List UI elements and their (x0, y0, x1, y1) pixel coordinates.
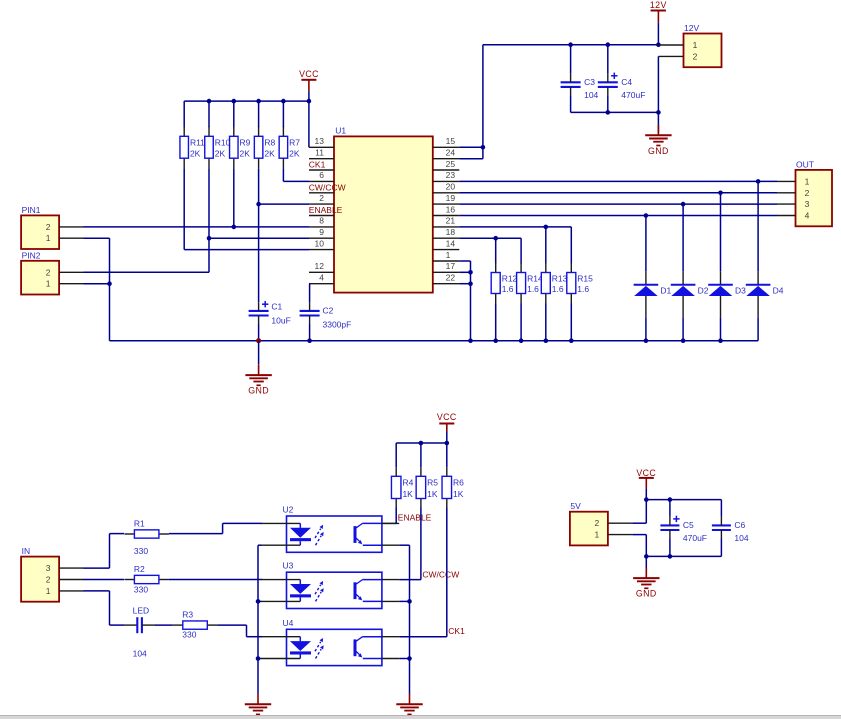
svg-text:21: 21 (446, 216, 456, 226)
svg-text:2: 2 (805, 188, 810, 198)
optocoupler U3 (262, 561, 400, 609)
svg-text:VCC: VCC (437, 412, 457, 422)
svg-text:R6: R6 (453, 478, 464, 488)
svg-text:24: 24 (446, 148, 456, 158)
wire R10 top (208, 101, 210, 127)
connector 12V (658, 23, 721, 67)
wire 5V bottom rail (644, 539, 721, 559)
svg-text:1.6: 1.6 (577, 284, 589, 294)
svg-text:U4: U4 (283, 618, 294, 628)
wire 5V top rail (644, 488, 721, 502)
wire D2 bottom (681, 317, 686, 343)
svg-text:U3: U3 (283, 561, 294, 571)
svg-text:GND: GND (248, 386, 269, 396)
svg-text:12V: 12V (650, 0, 667, 10)
wire C3 top (570, 45, 572, 74)
svg-text:3300pF: 3300pF (323, 320, 352, 330)
svg-text:U2: U2 (283, 505, 294, 515)
wire R9 bottom to pin8 row (232, 168, 237, 229)
svg-text:16: 16 (446, 204, 456, 214)
svg-text:3: 3 (805, 199, 810, 209)
wire R8 bottom to pin2 row and C1 (256, 168, 309, 302)
wire D3 bottom (718, 317, 723, 343)
svg-text:C2: C2 (323, 306, 334, 316)
svg-text:LED: LED (133, 606, 150, 616)
svg-text:15: 15 (446, 136, 456, 146)
resistor R3 (173, 610, 218, 640)
capacitor C1 (249, 301, 291, 326)
wire 12V stem (657, 22, 659, 45)
svg-text:470uF: 470uF (621, 90, 645, 100)
wire R13 bottom (544, 304, 549, 344)
wire D2 top (681, 202, 686, 271)
wire 12V pin2 down to GND (657, 56, 659, 132)
svg-text:GND: GND (636, 589, 657, 599)
wire C1 bottom to ground bus (258, 324, 260, 341)
resistor R12 (491, 263, 517, 304)
wire pin1/17/22 common (459, 261, 473, 343)
optocoupler U2 (262, 505, 400, 553)
resistor R5 (416, 467, 438, 507)
ground (645, 125, 671, 156)
svg-text:330: 330 (134, 585, 148, 595)
power VCC (5V section) (636, 468, 656, 488)
connector OUT (777, 159, 832, 226)
wire R11 bottom to pin10 (184, 168, 309, 249)
svg-text:10: 10 (315, 238, 325, 248)
wire VCC top bus (184, 100, 309, 102)
svg-text:1.6: 1.6 (527, 284, 539, 294)
power VCC (top) (299, 69, 319, 92)
svg-text:PIN2: PIN2 (22, 250, 41, 260)
capacitor C6 (712, 517, 749, 543)
wire U4 collector to R6 / net CK1 (399, 508, 465, 637)
svg-text:2K: 2K (190, 149, 201, 159)
resistor R8 (254, 126, 275, 168)
wire R14 bottom (519, 304, 524, 344)
wire pin23 to OUT.1 (459, 180, 777, 182)
ground (245, 694, 271, 715)
wire 5V pin2 up (632, 500, 646, 524)
svg-text:VCC: VCC (636, 468, 656, 478)
svg-text:330: 330 (134, 546, 148, 556)
svg-text:13: 13 (315, 136, 325, 146)
wire pin19 to OUT.3 (459, 203, 777, 205)
svg-text:IN: IN (22, 546, 31, 556)
resistor R1 (124, 518, 168, 556)
wire PIN1.2 to pin8 (83, 226, 309, 228)
svg-text:12V: 12V (684, 23, 699, 33)
connector 5V (570, 501, 633, 545)
wire R3 to U4 anode (217, 625, 262, 637)
svg-text:2K: 2K (240, 149, 251, 159)
wire R12 bottom (493, 304, 498, 344)
svg-text:PIN1: PIN1 (22, 205, 41, 215)
svg-text:OUT: OUT (796, 159, 814, 169)
wire ground bus (top section) (110, 340, 759, 342)
svg-text:11: 11 (315, 148, 324, 158)
svg-text:C3: C3 (584, 77, 595, 87)
svg-text:1K: 1K (402, 489, 413, 499)
svg-text:10uF: 10uF (271, 316, 290, 326)
wire 5V GND drop (645, 556, 647, 573)
wire PIN2.2 to R10 vertical (83, 271, 209, 273)
svg-text:19: 19 (446, 193, 456, 203)
svg-text:C4: C4 (621, 77, 632, 87)
svg-text:1K: 1K (427, 489, 438, 499)
wire pin15 to 12V rail (459, 45, 485, 159)
svg-text:1: 1 (446, 250, 451, 260)
optocoupler U4 (262, 618, 400, 666)
svg-text:3: 3 (46, 563, 51, 573)
svg-text:1.6: 1.6 (502, 284, 514, 294)
connector PIN2 (21, 250, 84, 294)
wire LED to R3 (155, 624, 173, 626)
svg-text:6: 6 (319, 170, 324, 180)
svg-text:104: 104 (734, 533, 748, 543)
svg-text:1: 1 (693, 40, 698, 50)
wire R8 top (258, 101, 260, 127)
svg-text:4: 4 (319, 273, 324, 283)
ground (245, 365, 271, 396)
wire pin21 to R13/R15 (459, 225, 571, 230)
svg-text:ENABLE: ENABLE (398, 513, 432, 523)
resistor R2 (124, 564, 168, 595)
svg-text:D4: D4 (773, 285, 784, 295)
svg-text:U1: U1 (335, 126, 346, 136)
svg-text:R11: R11 (190, 138, 205, 148)
wire C3-C4 bottom rail (571, 95, 661, 114)
resistor R15 (567, 263, 593, 304)
svg-text:R13: R13 (552, 274, 568, 284)
wire C5 top (669, 500, 671, 517)
svg-text:2: 2 (319, 193, 324, 203)
svg-text:14: 14 (446, 238, 456, 248)
svg-text:1.6: 1.6 (552, 284, 564, 294)
svg-text:R15: R15 (577, 274, 593, 284)
svg-text:C1: C1 (271, 302, 282, 312)
window scrollbar strip (0, 715, 841, 719)
wire emitter bus to ground (399, 545, 412, 694)
svg-text:2K: 2K (289, 149, 300, 159)
wire PIN1.1 down to ground bus (83, 238, 111, 341)
IC U1 (334, 126, 433, 293)
svg-text:1: 1 (595, 530, 600, 540)
wire R10 bottom to pin9 and PIN2.2 (207, 168, 309, 272)
resistor R9 (230, 126, 251, 168)
svg-text:104: 104 (584, 90, 598, 100)
svg-text:8: 8 (319, 216, 324, 226)
wire U3 collector to R5 / net CW/CCW (399, 508, 459, 580)
wire R7 top (282, 101, 284, 127)
wire C4 top (607, 45, 609, 74)
wire 12V top rail (483, 42, 661, 47)
wire R12 top (495, 238, 497, 263)
connector IN (21, 546, 84, 602)
wire C2 bottom to ground bus (307, 324, 312, 343)
wire PIN2.1 join (83, 283, 109, 285)
svg-text:C5: C5 (683, 520, 694, 530)
ground (396, 694, 422, 715)
wire R15 bottom (569, 304, 574, 344)
resistor R10 (205, 126, 231, 168)
svg-text:1: 1 (46, 233, 51, 243)
svg-text:1: 1 (46, 279, 51, 289)
svg-text:R8: R8 (264, 138, 275, 148)
svg-text:104: 104 (133, 649, 147, 659)
svg-text:330: 330 (182, 629, 196, 639)
svg-text:R14: R14 (527, 274, 543, 284)
svg-text:CK1: CK1 (309, 160, 326, 170)
svg-text:2: 2 (693, 51, 698, 61)
svg-text:VCC: VCC (299, 69, 319, 79)
svg-text:R12: R12 (502, 274, 518, 284)
capacitor C2 (300, 302, 352, 329)
svg-text:CK1: CK1 (448, 626, 465, 636)
svg-text:20: 20 (446, 182, 456, 192)
svg-text:2K: 2K (215, 149, 226, 159)
svg-text:22: 22 (446, 273, 456, 283)
wire IN.2 to R2 (83, 579, 124, 581)
svg-text:12: 12 (315, 261, 325, 271)
svg-text:R3: R3 (182, 610, 193, 620)
svg-text:2: 2 (46, 267, 51, 277)
wire IN.1 down to LED cap (83, 591, 124, 625)
wire cathode bus to ground (256, 545, 262, 694)
svg-text:2K: 2K (264, 149, 275, 159)
resistor R14 (517, 263, 543, 304)
wire R11 top (183, 101, 185, 127)
svg-text:D2: D2 (698, 285, 709, 295)
wire D3 top (718, 191, 723, 272)
svg-text:R1: R1 (134, 518, 145, 528)
capacitor LED (124, 606, 155, 659)
wire VCC stem to pin13 (308, 92, 310, 148)
svg-text:D1: D1 (660, 285, 671, 295)
wire GND drop (258, 341, 260, 365)
capacitor C3 (561, 74, 599, 100)
wire pin18 to R12/R14 (459, 236, 521, 241)
connector PIN1 (21, 205, 84, 249)
svg-text:2: 2 (46, 575, 51, 585)
svg-text:R2: R2 (134, 564, 145, 574)
svg-text:18: 18 (446, 227, 456, 237)
U1 right pins (433, 136, 460, 284)
wire R7 bottom to pin6 (283, 168, 309, 181)
svg-text:1: 1 (805, 176, 810, 186)
svg-text:2: 2 (46, 222, 51, 232)
svg-text:GND: GND (648, 146, 669, 156)
wire R1 to U2 anode (169, 523, 262, 533)
svg-text:CW/CCW: CW/CCW (309, 182, 346, 192)
resistor R6 (442, 467, 464, 507)
diode D4 (746, 271, 784, 317)
wire VCC to pullups (396, 432, 449, 467)
ground (633, 568, 659, 599)
svg-text:R7: R7 (289, 138, 300, 148)
svg-text:1: 1 (46, 586, 51, 596)
svg-text:9: 9 (319, 227, 324, 237)
wire pin16 to OUT.4 (459, 215, 777, 217)
svg-text:23: 23 (446, 170, 456, 180)
svg-text:R9: R9 (240, 138, 251, 148)
power VCC (logic) (437, 412, 457, 432)
diode D1 (634, 271, 672, 317)
wire pin20 to OUT.2 (459, 192, 777, 194)
svg-text:R10: R10 (215, 138, 231, 148)
U1 left pins (309, 136, 334, 284)
resistor R7 (279, 126, 300, 168)
power 12V (650, 0, 667, 22)
wire IN.3 up to R1 (83, 534, 124, 569)
capacitor C4 (598, 73, 646, 100)
wire D1 bottom (644, 317, 649, 343)
resistor R11 (180, 126, 205, 168)
wire D4 bottom (757, 317, 759, 341)
wire 5V pin1 down (632, 535, 646, 557)
svg-text:5V: 5V (570, 501, 581, 511)
junction ground bus / GND drop (256, 338, 261, 343)
svg-text:2: 2 (595, 518, 600, 528)
wire R9 top (233, 101, 235, 127)
svg-text:R4: R4 (402, 478, 413, 488)
svg-text:C6: C6 (734, 520, 745, 530)
svg-text:ENABLE: ENABLE (309, 205, 343, 215)
svg-text:470uF: 470uF (683, 533, 707, 543)
wire R2 to U3 anode (169, 579, 262, 581)
resistor R13 (541, 263, 567, 304)
svg-text:4: 4 (805, 211, 810, 221)
diode D2 (671, 271, 709, 317)
svg-text:R5: R5 (427, 478, 438, 488)
wire pin4 to C2 (308, 284, 311, 303)
capacitor C5 (660, 516, 707, 543)
svg-text:25: 25 (446, 159, 456, 169)
wire D1 top (644, 213, 649, 271)
wire D4 top (756, 179, 761, 271)
svg-text:17: 17 (446, 261, 456, 271)
svg-text:CW/CCW: CW/CCW (422, 569, 459, 579)
resistor R4 (391, 467, 413, 507)
wire R14 top (520, 238, 522, 263)
wire R13 top (545, 227, 547, 264)
diode D3 (708, 271, 746, 317)
wire R15 top (570, 227, 572, 264)
svg-text:D3: D3 (735, 285, 746, 295)
junction dots on VCC bus (207, 99, 312, 104)
svg-text:1K: 1K (453, 489, 464, 499)
wire U2 collector to R4 / net ENABLE (382, 508, 432, 524)
wire C6 top (720, 500, 722, 517)
